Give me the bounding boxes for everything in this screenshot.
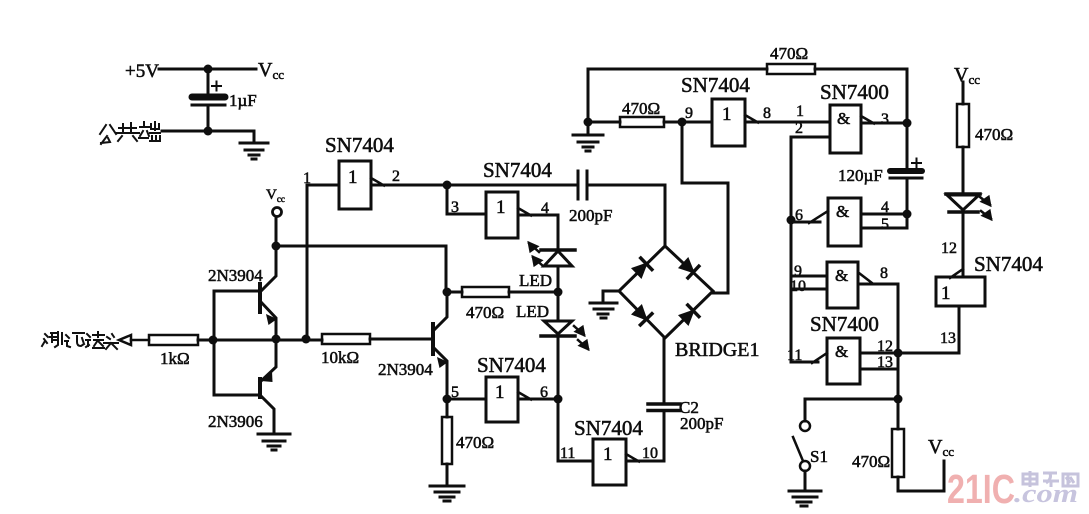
wire pin13 out	[860, 353, 898, 399]
svg-text:5: 5	[881, 216, 889, 233]
pin 5 label	[451, 384, 459, 401]
inverter U1A output slash	[371, 178, 384, 186]
bridge diode D3 (top-left)	[631, 258, 651, 279]
pin 13 label	[877, 354, 893, 371]
wire pin3	[447, 185, 486, 214]
label 470 R3	[466, 303, 504, 322]
node Vcp junction	[272, 242, 281, 251]
label Vcc (top-left)	[258, 59, 284, 82]
transistor Q3 2N3904	[433, 292, 448, 399]
inverter U1A SN7404 label	[325, 133, 394, 157]
ground (R6 left)	[573, 122, 603, 151]
transistor Q2 2N3906	[214, 339, 276, 434]
node common/C1 junction	[204, 127, 213, 136]
svg-text:470Ω: 470Ω	[622, 99, 660, 118]
node Q1 emitter junction	[272, 335, 281, 344]
wire pin11	[791, 361, 818, 364]
wire pin6 to pin11	[558, 399, 593, 461]
node pin12 junction	[894, 349, 903, 358]
transistor Q3 2N3904 label	[378, 360, 433, 379]
svg-text:1kΩ: 1kΩ	[160, 349, 190, 368]
svg-text:470Ω: 470Ω	[466, 303, 504, 322]
svg-text:&: &	[835, 266, 848, 285]
inverter U1E SN7404 label	[681, 73, 750, 97]
resistor R8 470 vertical	[957, 104, 969, 147]
svg-text:8: 8	[763, 105, 771, 122]
wire pin6 out	[518, 398, 558, 401]
inverter U1A box	[339, 161, 371, 209]
svg-text:2: 2	[392, 168, 400, 185]
pin 3 label	[451, 199, 459, 216]
bridge diode D4 (top-right)	[678, 257, 698, 278]
nand U2B box	[828, 198, 861, 246]
nand U2D input slash	[812, 353, 827, 363]
svg-text:+5V: +5V	[125, 61, 159, 82]
wire pin5 out	[861, 214, 907, 228]
label 10k	[321, 348, 359, 367]
label 470 R7	[852, 452, 890, 471]
pin 1 label	[303, 170, 311, 187]
wire Vcc down	[962, 82, 965, 104]
pin 10 label (U2C)	[790, 278, 806, 295]
svg-text:SN7404: SN7404	[681, 73, 750, 97]
wire base column	[213, 291, 216, 395]
wire pin8 out	[859, 284, 898, 353]
transistor Q2 2N3906 label	[208, 412, 263, 431]
svg-text:S1: S1	[810, 447, 828, 466]
node pin9 junction	[678, 118, 687, 127]
svg-text:10: 10	[642, 445, 658, 462]
inverter U1F box	[936, 277, 985, 306]
pin 6 label (U2B)	[795, 207, 803, 224]
label SN7400 top	[820, 80, 889, 104]
wire pin8 out	[745, 121, 830, 124]
nand U2D box	[827, 338, 860, 384]
wire pin4 out	[861, 213, 907, 216]
resistor R7 470 vertical	[892, 399, 944, 491]
input probe arrow	[119, 335, 131, 345]
nand U2A output slash	[861, 116, 874, 124]
wire pin9 to box	[682, 121, 712, 124]
svg-text:2N3904: 2N3904	[378, 360, 433, 379]
nand U2A box	[830, 105, 861, 153]
wire R2 to Q3 base	[370, 338, 433, 341]
label S1	[810, 447, 828, 466]
resistor R5 470 top	[767, 64, 815, 74]
nand U2C symbol	[835, 266, 848, 285]
ground (R4)	[430, 486, 464, 501]
inverter U1C box	[486, 377, 518, 422]
pin 9 label (U2C)	[794, 263, 802, 280]
label 120uF	[838, 166, 883, 185]
node pin4 junction	[903, 210, 912, 219]
pin 4 label	[541, 200, 549, 217]
svg-text:SN7404: SN7404	[574, 416, 643, 440]
svg-text:SN7400: SN7400	[820, 80, 889, 104]
node emitter pin5 junction	[443, 395, 452, 404]
node probe junction	[209, 336, 218, 345]
svg-text:1: 1	[496, 197, 506, 218]
label +5V	[125, 61, 159, 82]
node ground junction	[584, 118, 593, 127]
svg-text:470Ω: 470Ω	[852, 452, 890, 471]
wire pin10	[791, 288, 827, 291]
svg-text:3: 3	[881, 111, 889, 128]
svg-text:21IC: 21IC	[947, 466, 1015, 512]
svg-text:BRIDGE1: BRIDGE1	[675, 339, 759, 361]
label 470 R5	[770, 44, 808, 63]
label 测试探头	[42, 332, 118, 349]
pin 13 label (U1F)	[940, 330, 956, 347]
label LED1	[519, 271, 552, 290]
wire top rail left	[588, 68, 767, 71]
label SN7400 bottom	[810, 312, 879, 336]
pin 8 label (U2C)	[880, 265, 888, 282]
nand U2D symbol	[835, 342, 848, 361]
pin 1 label (U2A)	[796, 103, 804, 120]
wire pin2 out	[371, 184, 447, 187]
svg-text:200pF: 200pF	[569, 206, 612, 225]
svg-text:2N3906: 2N3906	[208, 412, 263, 431]
node 470 LED junction	[554, 288, 563, 297]
wire R1 to base column	[198, 339, 322, 342]
wire LED2 down	[557, 336, 560, 399]
capacitor C1 1uF	[192, 69, 225, 131]
inverter U1D output slash	[626, 454, 639, 462]
inverter U1E box	[712, 99, 745, 146]
LED D7	[946, 194, 980, 212]
svg-text:10: 10	[790, 278, 806, 295]
watermark 21IC	[947, 466, 1015, 512]
node pin6 junction	[554, 395, 563, 404]
nand U2C output slash	[859, 273, 872, 283]
wire common rail	[162, 130, 254, 133]
svg-text:LED: LED	[516, 302, 549, 321]
ground (Q2 collector)	[258, 434, 290, 450]
resistor R2 10k	[322, 334, 370, 344]
wire top rail right	[815, 69, 907, 122]
pin 5 label	[881, 216, 889, 233]
label 1uF	[229, 91, 257, 110]
capacitor C2 200pF	[648, 338, 680, 411]
resistor R4 470 vertical	[442, 399, 452, 486]
svg-text:.com: .com	[1014, 479, 1078, 508]
inverter U1B gate number	[496, 197, 506, 218]
wire +5V rail	[159, 68, 256, 71]
wire probe to R1	[131, 339, 149, 342]
svg-text:470Ω: 470Ω	[975, 125, 1013, 144]
ground (power common)	[240, 131, 268, 159]
capacitor C1b 200pF	[447, 171, 665, 246]
svg-text:1: 1	[603, 444, 613, 465]
label BRIDGE1	[675, 339, 759, 361]
inverter U1B box	[486, 192, 518, 238]
wire bridge top feed	[682, 122, 728, 293]
wire pin9	[791, 275, 827, 278]
node pin6 feedback junction	[787, 216, 796, 225]
wire pin4 out	[518, 215, 558, 249]
wire pin13 out	[898, 306, 959, 353]
svg-text:1µF: 1µF	[229, 91, 257, 110]
svg-text:1: 1	[348, 167, 358, 188]
terminal Vcp circle	[273, 208, 282, 217]
inverter U1C output slash	[518, 392, 531, 400]
inverter U1B SN7404 label	[483, 158, 552, 182]
transistor Q1 2N3904	[214, 247, 277, 339]
svg-text:SN7404: SN7404	[477, 353, 546, 377]
wire pin1	[307, 185, 339, 339]
nand U2A symbol	[837, 109, 850, 128]
wire Vcp down	[275, 218, 278, 246]
inverter U1E gate number	[722, 104, 732, 125]
label Vcp terminal	[266, 187, 285, 204]
svg-text:LED: LED	[519, 271, 552, 290]
nand U2B input slash	[809, 211, 828, 223]
wire pin6	[791, 221, 820, 224]
pin 3 label	[881, 111, 889, 128]
wire pin10 out	[626, 412, 664, 461]
bridge diode D6 (bottom-right)	[678, 305, 698, 326]
ground (S1)	[789, 491, 821, 506]
inverter U1D box	[593, 439, 626, 485]
capacitor C3 120uF	[890, 123, 922, 214]
pin 2 label	[392, 168, 400, 185]
bridge diode D5 (bottom-left)	[631, 304, 652, 324]
inverter U1F SN7404 label	[974, 252, 1043, 276]
pin 11 label	[787, 347, 802, 364]
svg-text:SN7404: SN7404	[974, 252, 1043, 276]
pin 2 label (U2A)	[795, 120, 803, 137]
node Q3 collector junction	[443, 288, 452, 297]
label 200pF C2	[680, 414, 723, 433]
inverter U1A gate number	[348, 167, 358, 188]
svg-text:2N3904: 2N3904	[208, 266, 263, 285]
watermark 电子网	[1023, 471, 1078, 487]
transistor Q1 2N3904 label	[208, 266, 263, 285]
inverter U1F gate number	[941, 283, 951, 304]
svg-text:120µF: 120µF	[838, 166, 883, 185]
pin 11 label	[560, 445, 575, 462]
label 公共端	[100, 122, 160, 144]
LED arrows up-left	[529, 243, 543, 266]
svg-text:2: 2	[795, 120, 803, 137]
wire pin3 out	[861, 122, 907, 125]
label 1k	[160, 349, 190, 368]
svg-text:470Ω: 470Ω	[456, 433, 494, 452]
node pin2 junction	[443, 181, 452, 190]
inverter U1C SN7404 label	[477, 353, 546, 377]
LED D1 (up)	[541, 250, 575, 266]
label LED2	[516, 302, 549, 321]
svg-text:9: 9	[685, 105, 693, 122]
pin 6 label	[540, 384, 548, 401]
svg-text:&: &	[835, 342, 848, 361]
LED D2 (down)	[541, 321, 575, 336]
svg-text:11: 11	[560, 445, 575, 462]
wire pin12 out	[860, 352, 898, 355]
wire pin5	[447, 398, 486, 401]
svg-text:1: 1	[941, 283, 951, 304]
watermark .com	[1014, 479, 1078, 508]
wire pin2	[791, 137, 830, 362]
label 200pF top	[569, 206, 612, 225]
pin 12 label (U1F)	[941, 240, 957, 257]
svg-text:200pF: 200pF	[680, 414, 723, 433]
pin 12 label	[877, 338, 893, 355]
svg-text:SN7400: SN7400	[810, 312, 879, 336]
wire top rail down left	[587, 69, 590, 122]
node pin3 junction	[903, 119, 912, 128]
ground (bridge)	[590, 303, 617, 318]
wire LED1 to LED2	[557, 266, 560, 321]
inverter U1D gate number	[603, 444, 613, 465]
pin 10 label	[642, 445, 658, 462]
svg-text:&: &	[837, 109, 850, 128]
bridge BRIDGE1	[619, 246, 713, 338]
LED D7 arrows	[980, 197, 991, 219]
LED arrows down-right	[574, 326, 588, 349]
svg-text:12: 12	[941, 240, 957, 257]
wire Vcp horizontal to right	[276, 246, 446, 292]
nand U2B symbol	[836, 202, 849, 221]
label 470 R4	[456, 433, 494, 452]
inverter U1B output slash	[518, 208, 531, 216]
inverter U1D SN7404 label	[574, 416, 643, 440]
label C2	[679, 398, 699, 417]
node +5V/C1 junction	[204, 65, 213, 74]
label 470 R8	[975, 125, 1013, 144]
svg-text:SN7404: SN7404	[483, 158, 552, 182]
resistor R1 1k	[149, 335, 198, 345]
wire to switch	[805, 399, 898, 421]
svg-text:&: &	[836, 202, 849, 221]
pin 4 label	[881, 199, 889, 216]
inverter U1F input slash	[950, 269, 963, 278]
pin 8 label	[763, 105, 771, 122]
inverter U1C gate number	[495, 382, 505, 403]
svg-text:SN7404: SN7404	[325, 133, 394, 157]
inverter U1E output slash	[745, 115, 758, 123]
wire R8 to LED3	[962, 147, 965, 194]
resistor R3 470 horizontal	[447, 287, 558, 297]
label Vcc (far right)	[954, 64, 980, 87]
svg-text:8: 8	[880, 265, 888, 282]
pin 9 label	[685, 105, 693, 122]
svg-text:1: 1	[796, 103, 804, 120]
nand U2C box	[827, 262, 858, 308]
node pin1 column junction	[302, 335, 311, 344]
wire LED3 down	[962, 212, 965, 277]
node switch junction	[894, 395, 903, 404]
wire bridge left to ground	[603, 291, 619, 303]
switch S1	[793, 421, 810, 491]
svg-text:1: 1	[722, 104, 732, 125]
svg-text:1: 1	[495, 382, 505, 403]
label Vcc (bottom right)	[928, 436, 954, 459]
svg-text:13: 13	[940, 330, 956, 347]
svg-text:10kΩ: 10kΩ	[321, 348, 359, 367]
label 470 R6	[622, 99, 660, 118]
svg-text:470Ω: 470Ω	[770, 44, 808, 63]
resistor R6 470	[588, 117, 682, 127]
